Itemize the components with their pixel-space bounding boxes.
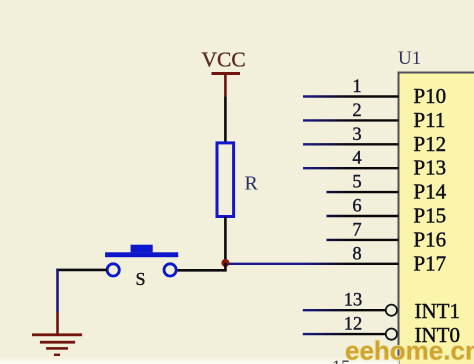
wire pin 6 [327, 215, 399, 217]
svg-text:6: 6 [352, 197, 361, 217]
switch S button bump [131, 245, 153, 253]
switch S left contact [107, 264, 119, 276]
svg-text:INT1: INT1 [415, 299, 461, 323]
wire pin 13 [303, 309, 386, 311]
resistor R [217, 143, 234, 217]
svg-text:P17: P17 [414, 251, 447, 275]
wire resistor R to node A [224, 217, 227, 264]
pin 13 inversion bubble [386, 305, 397, 316]
svg-text:P15: P15 [414, 204, 447, 228]
svg-text:eehome.cn: eehome.cn [345, 336, 474, 364]
ground bar 4 [54, 354, 60, 356]
wire pin 3 [303, 143, 399, 145]
svg-text:P11: P11 [414, 108, 446, 132]
pin 12 inversion bubble [386, 329, 397, 340]
wire node A down to switch level [224, 263, 227, 270]
wire switch S left terminal to ground corner [56, 269, 107, 272]
svg-text:VCC: VCC [202, 48, 246, 72]
switch S right contact [164, 264, 176, 276]
wire switch S right terminal to node A [176, 269, 226, 272]
ground bar 1 [32, 333, 82, 336]
svg-text:S: S [135, 269, 145, 289]
wire pin 1 [303, 95, 399, 97]
wire down to ground (red lower) [56, 312, 59, 335]
svg-text:13: 13 [344, 291, 363, 311]
wire pin 4 [303, 167, 399, 169]
svg-text:2: 2 [352, 101, 361, 121]
wire pin 7 [327, 239, 399, 241]
svg-text:8: 8 [352, 244, 361, 264]
wire VCC stub (red) [224, 74, 227, 96]
svg-text:12: 12 [344, 315, 363, 335]
svg-text:3: 3 [352, 125, 361, 145]
svg-text:4: 4 [352, 149, 361, 169]
svg-text:P14: P14 [414, 180, 447, 204]
svg-text:1: 1 [352, 77, 361, 97]
wire pin 12 [303, 333, 386, 335]
svg-text:P13: P13 [414, 156, 447, 180]
wire VCC to resistor R [224, 96, 227, 143]
wire down to ground (navy upper) [56, 269, 59, 312]
node A junction dot [221, 259, 229, 267]
svg-text:U1: U1 [398, 48, 421, 69]
wire pin 8 (from node A to U1) [225, 263, 398, 265]
IC U1 body [399, 73, 474, 364]
ground bar 2 [40, 341, 75, 344]
svg-text:5: 5 [352, 173, 361, 193]
svg-text:P16: P16 [414, 227, 447, 251]
svg-text:P10: P10 [414, 84, 447, 108]
wire pin 5 [327, 191, 399, 193]
bottom fade band [0, 354, 399, 364]
ground bar 3 [46, 347, 68, 350]
VCC power bar [212, 72, 241, 75]
svg-text:R: R [245, 173, 259, 195]
svg-text:P12: P12 [414, 132, 447, 156]
switch S actuator bar [105, 252, 178, 257]
wire pin 2 [303, 119, 399, 121]
svg-text:7: 7 [352, 220, 361, 240]
